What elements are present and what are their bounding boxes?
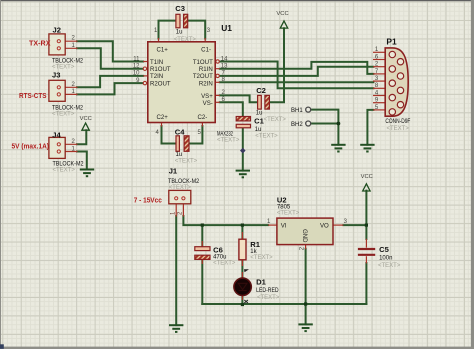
svg-text:<TEXT>: <TEXT> — [264, 117, 287, 123]
svg-text:RTS-CTS: RTS-CTS — [19, 91, 47, 100]
svg-text:VI: VI — [281, 222, 287, 229]
svg-text:<TEXT>: <TEXT> — [213, 261, 236, 267]
svg-text:1u: 1u — [255, 127, 262, 133]
svg-text:C2+: C2+ — [157, 114, 169, 121]
svg-text:U2: U2 — [277, 195, 287, 204]
svg-text:C2-: C2- — [197, 114, 207, 121]
svg-text:<TEXT>: <TEXT> — [277, 211, 300, 217]
svg-text:100n: 100n — [379, 255, 392, 261]
svg-text:TBLOCK-M2: TBLOCK-M2 — [168, 179, 200, 185]
svg-text:1u: 1u — [176, 30, 183, 36]
svg-text:TX-RX: TX-RX — [29, 38, 51, 47]
svg-text:VCC: VCC — [276, 11, 288, 17]
svg-text:T2OUT: T2OUT — [193, 73, 213, 80]
svg-text:1: 1 — [154, 28, 158, 34]
svg-text:R2IN: R2IN — [199, 80, 213, 87]
svg-text:VCC: VCC — [80, 116, 92, 122]
svg-text:<TEXT>: <TEXT> — [257, 295, 280, 301]
svg-text:T1OUT: T1OUT — [193, 59, 213, 66]
svg-text:CONN-D9F: CONN-D9F — [385, 119, 410, 125]
svg-text:VO: VO — [320, 222, 329, 229]
svg-text:VCC: VCC — [361, 174, 373, 180]
svg-text:TBLOCK-M2: TBLOCK-M2 — [52, 59, 84, 65]
svg-text:C2: C2 — [256, 86, 266, 95]
svg-text:<TEXT>: <TEXT> — [387, 126, 410, 132]
svg-text:4: 4 — [156, 130, 160, 136]
svg-text:2: 2 — [178, 211, 184, 215]
svg-text:<TEXT>: <TEXT> — [217, 138, 240, 144]
svg-text:13: 13 — [221, 64, 228, 70]
svg-text:J4: J4 — [52, 130, 61, 139]
svg-text:1u: 1u — [176, 152, 183, 158]
svg-text:T2IN: T2IN — [150, 73, 163, 80]
svg-text:10: 10 — [133, 71, 140, 77]
svg-text:<TEXT>: <TEXT> — [378, 263, 401, 269]
svg-text:R1OUT: R1OUT — [150, 66, 171, 73]
svg-text:GND: GND — [301, 229, 307, 243]
svg-text:J2: J2 — [53, 26, 61, 35]
svg-text:2: 2 — [300, 246, 306, 250]
svg-text:P1: P1 — [386, 36, 397, 46]
svg-text:<TEXT>: <TEXT> — [52, 65, 75, 71]
svg-text:BH2: BH2 — [291, 122, 303, 128]
svg-text:C6: C6 — [213, 246, 223, 255]
svg-text:2: 2 — [72, 36, 76, 42]
svg-text:5: 5 — [198, 130, 202, 136]
svg-text:J3: J3 — [52, 71, 60, 80]
svg-text:11: 11 — [133, 56, 140, 62]
svg-text:<TEXT>: <TEXT> — [53, 168, 76, 174]
svg-text:1: 1 — [267, 219, 271, 225]
svg-text:1k: 1k — [250, 249, 257, 255]
svg-text:3: 3 — [207, 28, 211, 34]
svg-text:MAX232: MAX232 — [217, 131, 233, 137]
svg-text:<TEXT>: <TEXT> — [175, 158, 198, 164]
svg-text:BH1: BH1 — [291, 108, 303, 114]
svg-text:<TEXT>: <TEXT> — [169, 185, 192, 191]
svg-text:<TEXT>: <TEXT> — [255, 133, 278, 139]
svg-text:1u: 1u — [256, 111, 263, 117]
svg-text:5V (max.1A): 5V (max.1A) — [12, 141, 50, 150]
svg-text:D1: D1 — [256, 277, 266, 286]
svg-text:C1-: C1- — [201, 47, 211, 54]
svg-text:<TEXT>: <TEXT> — [174, 37, 197, 43]
svg-text:LED-RED: LED-RED — [256, 288, 279, 294]
svg-text:<TEXT>: <TEXT> — [52, 112, 75, 118]
svg-text:R2OUT: R2OUT — [150, 80, 171, 87]
svg-text:J1: J1 — [169, 167, 178, 176]
svg-text:C3: C3 — [175, 4, 185, 13]
svg-text:C5: C5 — [379, 245, 389, 254]
svg-text:1: 1 — [170, 211, 176, 215]
svg-text:VS-: VS- — [203, 100, 213, 107]
svg-text:<TEXT>: <TEXT> — [250, 255, 273, 261]
svg-text:12: 12 — [133, 64, 140, 70]
svg-text:R1: R1 — [250, 240, 260, 249]
svg-text:R1IN: R1IN — [199, 66, 213, 73]
svg-text:T1IN: T1IN — [150, 59, 163, 66]
svg-text:C1+: C1+ — [157, 47, 169, 54]
svg-text:TBLOCK-M2: TBLOCK-M2 — [53, 162, 85, 168]
svg-text:14: 14 — [221, 56, 228, 62]
svg-text:TBLOCK-M2: TBLOCK-M2 — [52, 106, 84, 112]
svg-text:7 - 15Vcc: 7 - 15Vcc — [134, 195, 162, 204]
svg-text:C4: C4 — [175, 128, 185, 137]
svg-text:U1: U1 — [221, 23, 232, 33]
